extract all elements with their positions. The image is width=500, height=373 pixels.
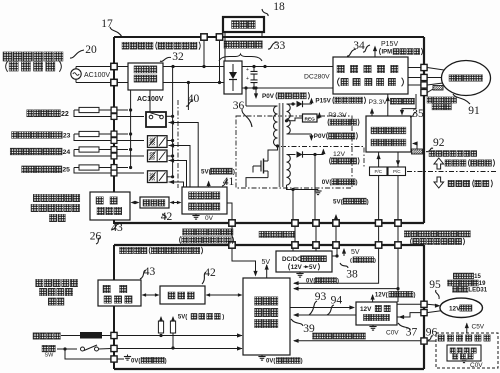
svg-text:): )	[355, 179, 357, 186]
svg-text:12V: 12V	[333, 151, 346, 158]
svg-text:12V: 12V	[291, 264, 303, 271]
svg-text:P/C: P/C	[374, 169, 382, 174]
svg-text:+: +	[246, 67, 249, 73]
svg-text:37: 37	[406, 327, 418, 339]
svg-text:42: 42	[161, 211, 173, 223]
svg-text:LED31: LED31	[468, 287, 487, 293]
svg-text:5V(: 5V(	[178, 315, 187, 321]
svg-text:): )	[222, 315, 224, 321]
svg-text:P3.3V: P3.3V	[369, 99, 388, 106]
svg-text:C5V: C5V	[472, 323, 485, 330]
svg-text:P15V: P15V	[381, 41, 398, 48]
svg-text:P0V: P0V	[262, 93, 275, 100]
svg-text:93: 93	[315, 291, 327, 303]
svg-text:24: 24	[63, 149, 71, 156]
svg-text:0V: 0V	[205, 215, 214, 222]
svg-text:12V: 12V	[449, 305, 461, 312]
svg-text:): )	[337, 279, 339, 285]
svg-text:36: 36	[233, 100, 245, 112]
svg-text:0V(: 0V(	[266, 359, 275, 365]
svg-text:P0V: P0V	[314, 133, 327, 140]
svg-text:C0V: C0V	[386, 330, 399, 337]
svg-text:AC100V: AC100V	[137, 96, 164, 103]
svg-text:12V: 12V	[360, 306, 372, 313]
svg-text:42: 42	[204, 267, 216, 279]
svg-text:IPM: IPM	[381, 50, 392, 56]
svg-text:15: 15	[474, 274, 481, 280]
svg-text:25: 25	[62, 167, 70, 174]
svg-text:P/C: P/C	[393, 169, 401, 174]
svg-text:43: 43	[111, 222, 123, 234]
svg-text:18: 18	[273, 1, 285, 13]
svg-text:38: 38	[346, 269, 358, 281]
svg-text:0V(: 0V(	[322, 179, 333, 186]
svg-text:35: 35	[412, 108, 424, 120]
svg-text:SW: SW	[45, 353, 55, 359]
svg-text:40: 40	[188, 93, 200, 105]
svg-text:23: 23	[63, 132, 71, 139]
svg-text:(: (	[350, 258, 352, 264]
svg-text:34: 34	[353, 40, 365, 52]
svg-text:33: 33	[274, 40, 286, 52]
svg-text:REG: REG	[304, 116, 315, 122]
svg-text:C0V: C0V	[470, 362, 483, 369]
svg-text:20: 20	[85, 44, 97, 56]
svg-text:96: 96	[426, 327, 438, 339]
svg-text:): )	[414, 292, 416, 298]
svg-text:17: 17	[101, 18, 113, 30]
svg-text:95: 95	[429, 279, 441, 291]
svg-text:26: 26	[90, 231, 102, 243]
svg-text:P3.3V: P3.3V	[328, 112, 347, 119]
svg-text:41: 41	[223, 176, 235, 188]
svg-text:0V(: 0V(	[306, 279, 315, 285]
svg-text:P15V: P15V	[315, 98, 331, 105]
svg-text:19: 19	[479, 281, 486, 287]
svg-text:5V: 5V	[262, 259, 271, 266]
svg-text:): )	[367, 198, 369, 205]
svg-text:AC100V: AC100V	[84, 72, 110, 79]
svg-text:5V(: 5V(	[333, 198, 344, 205]
svg-text:32: 32	[172, 51, 184, 63]
svg-text:92: 92	[433, 137, 445, 149]
svg-text:): )	[301, 359, 303, 365]
svg-text:5V: 5V	[309, 264, 317, 271]
svg-text:): )	[374, 258, 376, 264]
svg-text:22: 22	[61, 111, 69, 118]
svg-text:94: 94	[331, 295, 343, 307]
svg-text:0V(: 0V(	[131, 358, 140, 364]
svg-text:12V(: 12V(	[375, 292, 388, 298]
svg-text:91: 91	[468, 105, 480, 117]
svg-text:5V: 5V	[351, 249, 360, 256]
svg-text:+: +	[246, 76, 249, 82]
svg-text:DC280V: DC280V	[304, 74, 330, 81]
svg-text:): )	[165, 358, 167, 364]
svg-text:5V(: 5V(	[201, 168, 212, 175]
svg-text:43: 43	[144, 266, 156, 278]
svg-text:): )	[233, 168, 235, 175]
svg-text:DC/DC: DC/DC	[282, 256, 302, 263]
